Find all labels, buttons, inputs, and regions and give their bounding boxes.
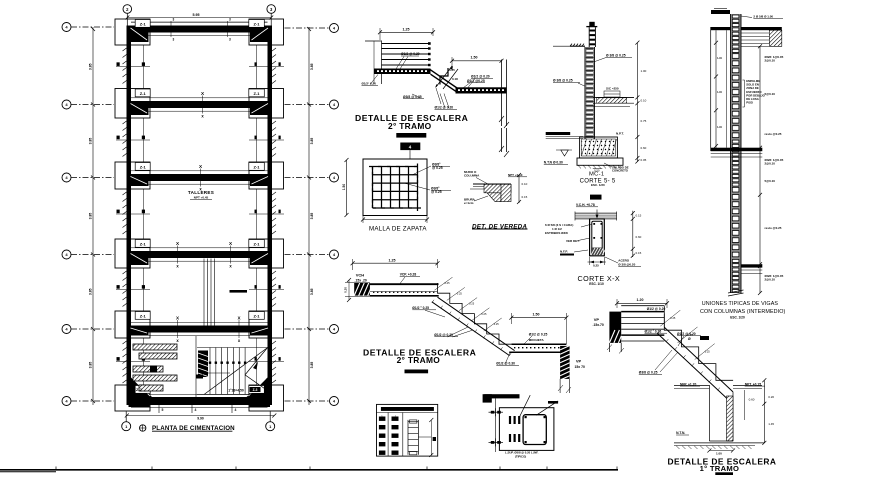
stair2-upper slab stack lines xyxy=(382,43,430,45)
plan top dimension line 5.95 xyxy=(127,17,271,19)
bay 5 wall hatch ticks xyxy=(123,341,127,344)
grid bubble row 1 left xyxy=(62,23,71,32)
foundation plan: grid bubble B top-right xyxy=(267,5,276,14)
svg-text:0.18: 0.18 xyxy=(452,77,458,81)
stair2-upper right dim 1.50 xyxy=(452,60,502,62)
malla left dim line xyxy=(346,160,348,215)
svg-text:ESC. 1/20: ESC. 1/20 xyxy=(730,315,745,319)
footing diagonal row 1 left xyxy=(131,28,148,40)
svg-text:Ø 3/8 @ 0.25: Ø 3/8 @ 0.25 xyxy=(553,79,573,83)
svg-text:L/3: L/3 xyxy=(717,125,722,129)
vereda vertical block xyxy=(501,184,511,201)
zapata label row 1 right xyxy=(249,20,264,28)
stair2b right dim 1.50 xyxy=(511,317,566,319)
column blob row 4 left xyxy=(129,252,149,265)
svg-text:Ø1/2 @ 0.20: Ø1/2 @ 0.20 xyxy=(435,106,454,110)
stair1 footing verticals xyxy=(708,385,710,441)
plan bottom dimension extension ticks xyxy=(158,405,160,413)
svg-text:ESC. 1/10: ESC. 1/10 xyxy=(589,282,604,286)
schedule table outer xyxy=(377,404,438,456)
footing Z-1 row 6 right xyxy=(249,385,284,411)
bay 2 left tie line xyxy=(143,118,145,162)
grid bubble row 2 leader dash-dot left xyxy=(71,104,114,106)
footing diagonal row 3 right xyxy=(252,177,269,185)
stair1 right dim xyxy=(763,380,765,443)
svg-text:0.05: 0.05 xyxy=(641,158,647,162)
cortexx beam rect xyxy=(590,219,605,256)
stair1 bottom dim xyxy=(709,450,733,452)
svg-text:Ø1/2 @ 0.20: Ø1/2 @ 0.20 xyxy=(401,52,420,56)
plan left wall (thick) xyxy=(127,26,132,406)
grid bubble row 1 leader dash-dot right xyxy=(285,27,330,29)
svg-text:3.85: 3.85 xyxy=(89,213,93,220)
svg-text:Z-1: Z-1 xyxy=(254,22,261,27)
uniones top right hatch block xyxy=(769,30,781,46)
beamdet top black bar xyxy=(484,394,519,398)
footing Z-1 row 4 left xyxy=(115,239,150,268)
grid bubble row 2 leader dash-dot right xyxy=(285,104,330,106)
plan right wall (thick) xyxy=(268,26,273,406)
svg-text:UNIONES TIPICAS DE VIGAS: UNIONES TIPICAS DE VIGAS xyxy=(702,301,779,307)
cisterna hatched wall band 5 xyxy=(139,385,163,391)
footing diagonal row 3 left xyxy=(131,177,148,185)
uniones beam B xyxy=(711,148,763,152)
bay 4 left tie line xyxy=(143,268,145,311)
duct lines between beams 4 and 5 xyxy=(203,259,205,327)
stair2b step dims xyxy=(435,277,453,290)
zapata label row 2 right xyxy=(249,89,264,97)
vereda slab lines xyxy=(473,183,511,185)
stair1 top dim 1.20 xyxy=(617,302,667,304)
svg-text:Z-1: Z-1 xyxy=(140,91,147,96)
stair2b VCH hatched block xyxy=(354,283,370,296)
svg-text:1°18=4.50: 1°18=4.50 xyxy=(228,389,244,393)
bay 2 right tie line xyxy=(256,118,258,162)
svg-text:0.15: 0.15 xyxy=(522,195,528,199)
svg-text:0.60: 0.60 xyxy=(636,235,642,239)
svg-text:VP: VP xyxy=(594,317,600,322)
svg-text:0.15: 0.15 xyxy=(636,214,642,218)
zapata label row 6 left xyxy=(135,386,150,394)
mc1 left lower black bar xyxy=(546,132,571,135)
svg-text:(TIPICO): (TIPICO) xyxy=(515,454,526,458)
svg-text:N.T.N.: N.T.N. xyxy=(676,431,685,435)
bay 1 wall hatch ticks xyxy=(123,48,127,51)
footing diagonal row 5 left xyxy=(131,328,148,333)
svg-text:0.75: 0.75 xyxy=(641,119,647,123)
mc1 upper column ladder xyxy=(588,27,590,47)
svg-text:Z-1: Z-1 xyxy=(140,242,147,247)
svg-text:3.85: 3.85 xyxy=(310,213,314,220)
svg-text:0.25: 0.25 xyxy=(481,312,487,316)
mc1 ground triangle symbol xyxy=(561,150,569,156)
svg-text:1.50: 1.50 xyxy=(471,56,478,60)
plan beam row 2 thin edge lines xyxy=(131,97,268,99)
footing Z-1 row 2 right xyxy=(249,89,284,119)
bay 4 wall hatch ticks xyxy=(123,271,127,274)
malla outer square xyxy=(363,159,427,216)
beamdet left rebar bars top xyxy=(509,416,511,424)
footing diagonal row 1 right xyxy=(252,28,269,40)
plan beam row 3 thin edge lines xyxy=(131,170,268,172)
footing Z-1 row 1 right xyxy=(249,19,284,45)
zapata label row 2 left xyxy=(135,89,150,97)
uniones column bottom break xyxy=(728,290,744,293)
footing Z-1 row 6 left xyxy=(115,385,150,411)
grid bubble row 2 left xyxy=(62,100,71,109)
svg-text:ESC. 1/20: ESC. 1/20 xyxy=(591,183,605,187)
svg-text:3: 3 xyxy=(173,18,175,22)
mc1 footing outer xyxy=(580,137,618,158)
grid bubble row 1 right xyxy=(330,24,339,33)
svg-text:0.60: 0.60 xyxy=(641,146,647,150)
zapata label row 3 left xyxy=(135,163,150,171)
svg-text:Z-2: Z-2 xyxy=(136,387,143,392)
svg-text:MC-1: MC-1 xyxy=(589,172,604,178)
mc1 floor slab right xyxy=(593,96,634,98)
svg-text:2 Ø 5/8 Ø 1.00: 2 Ø 5/8 Ø 1.00 xyxy=(753,15,773,19)
stair2b steps xyxy=(438,283,512,344)
stair2-upper left wall line xyxy=(381,41,383,85)
bottom border ticks xyxy=(55,467,57,471)
column blob row 3 left xyxy=(129,175,149,186)
plan beam row 5 (thick) xyxy=(127,326,273,333)
column blob row 3 right xyxy=(250,175,270,186)
svg-text:15x 70: 15x 70 xyxy=(575,365,585,369)
stair2-upper lower slab xyxy=(456,87,507,93)
zapata label row 5 right xyxy=(249,312,264,320)
svg-text:4: 4 xyxy=(235,408,237,412)
svg-text:e=1cm: e=1cm xyxy=(464,201,474,205)
svg-text:2° TRAMO: 2° TRAMO xyxy=(397,355,441,365)
svg-text:5.95: 5.95 xyxy=(193,13,200,17)
svg-text:0.25: 0.25 xyxy=(494,322,500,326)
footing Z-1 row 2 left xyxy=(115,89,150,119)
beamdet crosshairs xyxy=(491,411,495,414)
left dim label bay 3 xyxy=(89,213,93,220)
svg-text:0.25: 0.25 xyxy=(670,316,676,320)
grid bubble row 6 right xyxy=(330,397,339,406)
right dim label bay 2 xyxy=(310,138,314,145)
svg-text:0.25: 0.25 xyxy=(469,302,475,306)
svg-text:Ø: Ø xyxy=(688,337,691,341)
svg-text:Z-1: Z-1 xyxy=(254,91,261,96)
footing diagonal row 5 right xyxy=(252,328,269,333)
svg-text:NPT. +0.15: NPT. +0.15 xyxy=(745,382,762,386)
svg-text:0.60: 0.60 xyxy=(749,398,755,402)
cortexx bottom dim xyxy=(588,261,607,263)
svg-text:1.00: 1.00 xyxy=(641,69,647,73)
stair1 step dims xyxy=(660,310,680,326)
svg-text:MOCHETA: MOCHETA xyxy=(529,338,545,342)
right dim label bay 3 xyxy=(310,213,314,220)
svg-text:3.85: 3.85 xyxy=(310,63,314,70)
svg-text:0.20: 0.20 xyxy=(768,395,774,399)
beamdet corner dots xyxy=(525,416,527,418)
stair2b top slab xyxy=(370,283,439,285)
svg-text:1.25: 1.25 xyxy=(389,258,396,262)
stair1 sloped slab xyxy=(664,327,733,392)
stair1 VP hatched block xyxy=(609,312,621,343)
footing Z-1 row 1 left xyxy=(115,19,150,45)
stair2-upper sloped slab xyxy=(430,69,458,88)
beamdet left axis line xyxy=(495,398,497,452)
svg-text:Ø1/2° 0.20: Ø1/2° 0.20 xyxy=(362,82,377,86)
svg-text:3: 3 xyxy=(173,38,175,42)
grid bubble row 4 left xyxy=(62,250,71,259)
cisterna hatched wall band 4 xyxy=(133,375,177,381)
zapata label row 4 left xyxy=(135,240,150,248)
mc1 bottom dim xyxy=(593,168,603,170)
footing diagonal row 2 left xyxy=(131,104,148,114)
svg-text:Z-1: Z-1 xyxy=(140,165,147,170)
plan stair hatched wall block xyxy=(198,351,208,378)
cortexx slab lines xyxy=(575,212,617,214)
svg-text:0.15: 0.15 xyxy=(636,251,642,255)
section marks X on beam 4 xyxy=(177,246,179,264)
svg-text:3.85: 3.85 xyxy=(89,362,93,369)
stair1 steps profile xyxy=(664,314,733,381)
left dim label bay 2 xyxy=(89,138,93,145)
column blob row 5 left xyxy=(129,327,149,336)
svg-text:0.10: 0.10 xyxy=(641,99,647,103)
svg-text:NPT +0.45: NPT +0.45 xyxy=(194,196,209,200)
svg-text:Ø1/2 @ 0.20: Ø1/2 @ 0.20 xyxy=(677,332,696,336)
cortexx slab end ticks xyxy=(574,212,576,221)
foundation plan: grid bubble A top-left xyxy=(123,5,132,14)
column blob row 6 right (corner triangle) xyxy=(246,378,268,398)
left vertical dimension line xyxy=(92,27,94,405)
cisterna hatched wall band 1 xyxy=(133,344,177,350)
right dim label bay 5 xyxy=(310,362,314,369)
bay 1 right tie line xyxy=(256,45,258,89)
svg-text:1.50: 1.50 xyxy=(342,184,346,190)
section mark X on beam 3 xyxy=(200,169,202,187)
svg-text:2° TRAMO: 2° TRAMO xyxy=(388,121,432,131)
stair1 top slab lines xyxy=(621,305,664,307)
svg-text:1.20: 1.20 xyxy=(637,298,644,302)
stair2b VP beam hatched xyxy=(560,346,570,379)
svg-text:.15x .20: .15x .20 xyxy=(355,278,367,282)
zapata label row 3 right xyxy=(249,163,264,171)
bay 3 left tie line xyxy=(143,189,145,239)
bay 3 right tie line xyxy=(256,189,258,239)
door sill mark xyxy=(230,290,248,293)
svg-text:0.25: 0.25 xyxy=(445,281,451,285)
cortexx right dim xyxy=(632,211,634,257)
svg-text:Ø1/2 @0.25: Ø1/2 @0.25 xyxy=(467,79,485,83)
svg-text:3.85: 3.85 xyxy=(89,288,93,295)
stair2-upper landing slab xyxy=(374,69,431,75)
thin line above top beam xyxy=(131,21,268,23)
beamdet leader lines xyxy=(520,395,531,417)
plan beam row 3 (thick) xyxy=(127,174,273,181)
svg-text:TALLERES: TALLERES xyxy=(188,190,214,195)
stair2b bottom slab xyxy=(511,343,566,345)
svg-text:VCP. +0.28: VCP. +0.28 xyxy=(400,273,417,277)
svg-text:1° TRAMO: 1° TRAMO xyxy=(700,464,740,473)
stair2-upper right wall column xyxy=(501,60,503,127)
plan beam row 1 (thick) xyxy=(127,26,273,33)
column blob row 5 right xyxy=(250,327,270,336)
svg-text:3.85: 3.85 xyxy=(310,138,314,145)
uniones bottom-left mark xyxy=(700,336,709,340)
svg-text:2@0.10: 2@0.10 xyxy=(765,162,776,166)
plan beam row 6 (thick) xyxy=(127,397,273,405)
grid bubble row 5 leader dash-dot right xyxy=(285,328,330,330)
stair2-upper dimension line 1.25 xyxy=(380,31,433,33)
beamdet outer rect xyxy=(499,408,554,451)
plan beam row 1 thin edge lines xyxy=(131,21,268,23)
footing Z-1 row 5 right xyxy=(249,311,284,338)
uniones right dim line xyxy=(759,46,761,293)
zapata label row 6 right xyxy=(249,386,264,394)
grid bubble 1 bottom-right xyxy=(266,422,275,431)
svg-text:Ø1/2 ° 0.25: Ø1/2 ° 0.25 xyxy=(645,329,662,333)
bay 1 left tie line xyxy=(143,45,145,89)
svg-text:VER DET.: VER DET. xyxy=(566,239,580,243)
column blob row 1 right xyxy=(250,27,270,43)
svg-text:2@0.10: 2@0.10 xyxy=(765,59,776,63)
svg-text:@ 0.25: @ 0.25 xyxy=(432,166,443,170)
bay 5 left tie line xyxy=(143,338,145,385)
grid bubble row 6 leader dash-dot right xyxy=(285,400,330,402)
svg-text:1.00: 1.00 xyxy=(716,452,722,456)
svg-text:VCH: VCH xyxy=(356,273,365,278)
section mark X on beam 2 xyxy=(202,96,204,114)
footing diagonal row 4 right xyxy=(252,254,269,264)
grid bubble row 5 leader dash-dot left xyxy=(71,328,114,330)
svg-text:3: 3 xyxy=(229,38,231,42)
bay 2 wall hatch ticks xyxy=(123,121,127,124)
svg-text:4: 4 xyxy=(195,408,197,412)
svg-text:5: 5 xyxy=(162,408,164,412)
svg-text:L/3: L/3 xyxy=(717,56,722,60)
column blob row 1 left xyxy=(129,27,149,43)
svg-text:5@0.10: 5@0.10 xyxy=(765,179,776,183)
svg-text:Ø1/2 @ 0.20: Ø1/2 @ 0.20 xyxy=(647,307,666,311)
plan beam row 4 thin edge lines xyxy=(131,247,268,249)
footing diagonal row 4 left xyxy=(131,254,148,264)
grid bubble 1 bottom-left xyxy=(122,422,131,431)
malla bottom dim xyxy=(363,219,427,221)
zapata label row 5 left xyxy=(135,312,150,320)
mc1 wall inner hatch fill xyxy=(586,47,594,152)
plan stair treads xyxy=(209,348,211,395)
cisterna vertical line xyxy=(195,336,197,399)
svg-text:Ø 3/8 @ 0.25: Ø 3/8 @ 0.25 xyxy=(606,54,626,58)
schedule ladder detail xyxy=(407,420,409,455)
svg-text:Z-1: Z-1 xyxy=(140,22,147,27)
zapata label row 4 right xyxy=(249,240,264,248)
vereda right dim xyxy=(518,175,520,203)
uniones beam C xyxy=(741,264,762,267)
stair2-upper title bar xyxy=(396,133,426,138)
uniones top beam xyxy=(711,27,782,30)
left dim label bay 1 xyxy=(89,63,93,70)
column blob row 6 left (corner triangle) xyxy=(131,378,153,398)
mc1 footing hatch xyxy=(582,139,616,156)
svg-text:3.85: 3.85 xyxy=(310,288,314,295)
svg-text:0.25: 0.25 xyxy=(593,264,599,268)
footing Z-1 row 3 right xyxy=(249,162,284,189)
svg-text:0.20: 0.20 xyxy=(344,287,348,293)
bay 5 right tie line xyxy=(256,338,258,385)
cortexx center arrow xyxy=(596,210,598,218)
cortexx bottom hatch xyxy=(591,248,603,256)
svg-text:0.10: 0.10 xyxy=(522,182,528,186)
grid bubble row 3 leader dash-dot left xyxy=(71,177,114,179)
right dim label bay 1 xyxy=(310,63,314,70)
grid bubble row 4 leader dash-dot left xyxy=(71,254,114,256)
grid bubble row 3 left xyxy=(62,173,71,182)
schedule row squares xyxy=(379,417,386,421)
svg-text:NFP. +1.20: NFP. +1.20 xyxy=(680,382,697,386)
svg-text:S/C =250: S/C =250 xyxy=(606,87,619,91)
mc1 ground line left xyxy=(570,45,585,47)
svg-text:N.F.P.: N.F.P. xyxy=(560,250,568,254)
uniones left dim line xyxy=(715,30,717,148)
footing Z-1 row 3 left xyxy=(115,162,150,189)
schedule grid xyxy=(377,412,438,414)
plan bottom overall dimension xyxy=(127,415,274,417)
grid bubble row 4 leader dash-dot right xyxy=(285,254,330,256)
svg-text:MALLA DE ZAPATA: MALLA DE ZAPATA xyxy=(369,225,427,232)
svg-text:Z-1: Z-1 xyxy=(140,314,147,319)
svg-text:0.25: 0.25 xyxy=(705,350,711,354)
malla grid xyxy=(372,167,374,209)
svg-text:1.25: 1.25 xyxy=(403,28,410,32)
stair1 floor lines at footing top xyxy=(674,385,709,387)
plan stair cut diagonal xyxy=(204,348,268,395)
footing Z-1 row 4 right xyxy=(249,239,284,268)
uniones left edge lines xyxy=(710,27,712,151)
stair2-upper mid step profile xyxy=(440,68,448,85)
svg-text:Ø3/8 @ 0.25: Ø3/8 @ 0.25 xyxy=(639,371,658,375)
svg-text:2@0.10: 2@0.10 xyxy=(765,278,776,282)
stair1 mid dim xyxy=(744,390,746,420)
grid bubble row 2 right xyxy=(330,100,339,109)
grid bubble row 3 leader dash-dot right xyxy=(285,177,330,179)
column blob row 2 right xyxy=(250,102,270,115)
plan beam row 2 (thick) xyxy=(127,101,273,108)
bottom border line xyxy=(0,469,618,471)
zapata label row 1 left xyxy=(135,20,150,28)
mc1 wall inner ties dark xyxy=(586,48,594,50)
mc1 section box xyxy=(590,195,602,200)
svg-text:3.85: 3.85 xyxy=(89,138,93,145)
beamdet inner rounded rect xyxy=(523,415,546,445)
section marks X on beam 5 xyxy=(177,320,179,338)
plan stair landing line xyxy=(197,347,268,349)
grid bubble row 3 right xyxy=(330,173,339,182)
svg-text:3.85: 3.85 xyxy=(89,63,93,70)
grid bubble row 6 left xyxy=(62,397,71,406)
svg-text:Ø1/2 ° 0.25: Ø1/2 ° 0.25 xyxy=(412,306,429,310)
stair2b top dim 1.25 xyxy=(353,262,438,264)
right dim label bay 4 xyxy=(310,288,314,295)
left dim label bay 5 xyxy=(89,362,93,369)
left dim label bay 4 xyxy=(89,288,93,295)
svg-text:5@0.10: 5@0.10 xyxy=(765,92,776,96)
svg-text:1.50: 1.50 xyxy=(533,313,540,317)
svg-text:COLUMNA: COLUMNA xyxy=(464,174,480,178)
plan beam row 5 thin edge lines xyxy=(131,321,268,323)
cortexx stirrup xyxy=(592,221,602,253)
svg-text:9.90: 9.90 xyxy=(197,417,204,421)
svg-text:@ 0.25: @ 0.25 xyxy=(431,190,442,194)
svg-text:Z-3: Z-3 xyxy=(253,388,258,392)
